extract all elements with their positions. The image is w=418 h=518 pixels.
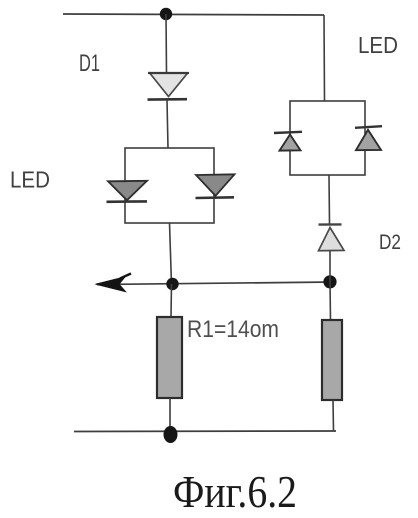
wire top rail to right LED box bbox=[323, 15, 326, 101]
wire left box to arrow rail bbox=[170, 223, 172, 285]
wire R2 to bottom rail bbox=[332, 400, 335, 432]
svg-text:LED: LED bbox=[358, 32, 398, 58]
wire bottom rail bbox=[74, 430, 336, 433]
LED diode left (in left box) bbox=[107, 181, 148, 202]
svg-text:D2: D2 bbox=[379, 231, 401, 254]
LED diode right (in right box) bbox=[355, 126, 382, 150]
diode D1 bbox=[148, 73, 190, 100]
LED diode right (in left box) bbox=[196, 174, 235, 198]
right LED box outline bbox=[290, 101, 365, 175]
wire D2 to node bbox=[329, 251, 331, 282]
left LED box outline bbox=[125, 148, 214, 223]
node top junction bbox=[160, 8, 172, 20]
svg-text:LED: LED bbox=[10, 167, 50, 193]
wire node to R2 bbox=[329, 282, 332, 320]
wire top rail bbox=[63, 14, 324, 15]
svg-text:R1=14om: R1=14om bbox=[187, 316, 279, 343]
arrow head (output) bbox=[96, 274, 132, 292]
wire R1 to bottom rail bbox=[169, 398, 171, 431]
wire node to R1 bbox=[170, 284, 173, 317]
wire top junction to D1 bbox=[165, 14, 168, 73]
svg-text:Фиг.6.2: Фиг.6.2 bbox=[173, 466, 297, 517]
wire right box to D2 bbox=[328, 175, 331, 224]
resistor R1 bbox=[157, 317, 182, 398]
LED diode left (in right box) bbox=[274, 132, 302, 151]
node bottom junction bbox=[164, 426, 178, 443]
svg-text:D1: D1 bbox=[79, 50, 100, 77]
wire D1 to left LED box bbox=[167, 100, 168, 148]
diode D2 bbox=[319, 224, 345, 250]
resistor R2 bbox=[322, 320, 342, 400]
wire arrow rail bbox=[97, 282, 334, 285]
node junction on arrow rail (right) bbox=[323, 275, 336, 288]
node junction on arrow rail (left) bbox=[166, 278, 178, 290]
